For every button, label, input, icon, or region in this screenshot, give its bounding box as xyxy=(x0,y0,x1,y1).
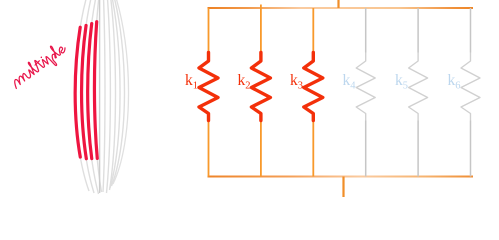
fiber f8 gray xyxy=(110,0,116,190)
fiber f1 gray xyxy=(75,0,89,191)
svg-text:k4: k4 xyxy=(343,72,357,92)
wire bottom stub xyxy=(342,177,344,198)
wire bottom bus xyxy=(208,176,474,178)
spring k1 xyxy=(199,53,218,121)
fiber f7 gray xyxy=(107,0,111,193)
fiber f2 gray xyxy=(82,0,94,193)
wire branch6 bottom xyxy=(470,121,472,177)
wire branch4 top xyxy=(365,8,367,53)
svg-text:k5: k5 xyxy=(395,72,408,92)
red fiber segment 2 xyxy=(82,0,94,193)
handwritten label multiple xyxy=(8,40,70,93)
fiber f6 gray xyxy=(103,0,105,192)
wire branch5 bottom xyxy=(417,121,419,177)
red fiber segment 4 xyxy=(94,0,101,192)
spring k6 xyxy=(461,53,480,121)
svg-text:k6: k6 xyxy=(448,72,461,92)
spring k4 xyxy=(356,53,375,121)
wire branch5 top xyxy=(417,8,419,53)
fiber f9 gray xyxy=(110,0,120,188)
fiber f11 gray xyxy=(113,0,129,184)
wire branch2 top xyxy=(260,5,262,53)
red fiber segment 1 xyxy=(75,0,89,191)
spring k2 xyxy=(251,53,270,121)
fiber f4 gray xyxy=(94,0,101,192)
wire branch1 bottom xyxy=(208,121,210,177)
wire branch2 bottom xyxy=(260,121,262,177)
spring k5 xyxy=(409,53,428,121)
wire top bus xyxy=(208,7,474,9)
svg-text:k3: k3 xyxy=(290,72,303,92)
fiber f3 gray xyxy=(88,0,99,194)
wire branch3 top xyxy=(312,8,314,53)
svg-text:k1: k1 xyxy=(185,72,198,92)
svg-text:k2: k2 xyxy=(238,72,251,92)
wire branch3 bottom xyxy=(312,121,314,177)
wire top stub xyxy=(337,0,339,8)
wire branch6 top xyxy=(470,8,472,53)
red fiber segment 3 xyxy=(88,0,99,194)
wire branch1 top xyxy=(208,8,210,53)
fiber center xyxy=(99,0,101,193)
wire branch4 bottom xyxy=(365,121,367,177)
spring k3 xyxy=(304,53,323,121)
fiber f10 gray xyxy=(112,0,125,186)
